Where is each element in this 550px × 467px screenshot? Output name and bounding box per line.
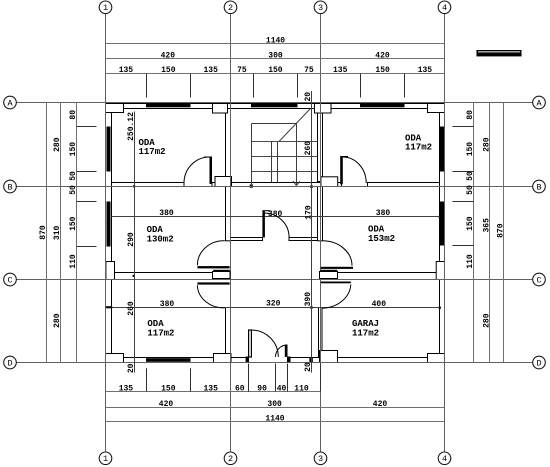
svg-text:135: 135 [203,384,218,393]
wall bottom D right of entrance [288,358,445,363]
wall upper hall south west part [231,238,263,241]
svg-text:20: 20 [127,363,136,373]
svg-text:110: 110 [69,254,78,269]
svg-text:75: 75 [304,66,314,75]
entrance door small swing arc [275,345,287,357]
svg-text:300: 300 [268,51,283,60]
svg-text:870: 870 [39,225,48,240]
svg-text:1140: 1140 [266,36,285,45]
dimension labels right (rotated) [466,110,506,328]
bubble 1 top [99,1,112,14]
left dim detail line [76,103,78,363]
right dim 280-365-280 line [489,103,491,363]
wall grid3 lower hall [319,308,323,358]
svg-text:1140: 1140 [265,414,284,423]
svg-text:130m2: 130m2 [147,235,174,245]
svg-text:150: 150 [161,384,176,393]
right dim 870 line [503,103,505,363]
interior dim line left vertical [134,112,136,373]
interior dim line lower horizontal [112,307,440,309]
dimension labels bottom [119,384,388,423]
svg-text:ODA: ODA [368,224,385,234]
bubble 2 bottom [224,452,237,465]
vestibule right upper leaf (black) [321,267,353,269]
left dim 280-310-280 line [60,103,62,363]
stair divider left line [271,142,273,183]
svg-text:380: 380 [268,210,283,219]
svg-text:20: 20 [304,362,313,372]
bubble D left [4,356,17,369]
pier A1 corner [106,104,124,113]
svg-text:280: 280 [482,137,491,152]
entrance jamb right (black) [288,357,291,363]
vestibule right mullion box [320,272,338,279]
svg-text:365: 365 [482,218,491,233]
svg-text:2: 2 [228,454,233,464]
svg-text:110: 110 [294,384,309,393]
stair landing top [252,123,297,125]
grid line D [16,362,532,364]
svg-text:3: 3 [318,3,323,13]
window top-left room [146,104,191,108]
svg-text:420: 420 [159,400,174,409]
svg-text:400: 400 [372,300,387,309]
pier A3 [315,104,332,114]
svg-text:ODA: ODA [147,319,164,329]
grid line B [16,186,532,188]
pier D grid2 [214,354,232,363]
window bottom-left room [146,358,191,362]
stair break diagonal [279,109,311,142]
right extension ticks [453,126,474,128]
svg-text:1: 1 [103,454,108,464]
svg-text:150: 150 [268,66,283,75]
vestibule left upper swing arc [197,241,224,266]
wall grid3 upper hall [318,187,323,241]
vestibule left lower swing arc [197,285,224,308]
pier B grid2 [215,177,232,187]
svg-text:135: 135 [119,384,134,393]
pier D4 corner [428,354,445,363]
pier C right wall [436,262,444,280]
svg-text:250.12: 250.12 [127,112,136,141]
vestibule left lower leaf (black) [197,282,229,284]
door top-left room: swing arc [184,157,210,183]
bottom dim 420-300-420 line [106,407,445,409]
svg-text:290: 290 [127,232,136,247]
dim line end dots [439,307,441,309]
svg-text:150: 150 [375,66,390,75]
svg-text:420: 420 [373,400,388,409]
svg-text:D: D [536,358,541,368]
svg-text:4: 4 [442,454,447,464]
svg-text:310: 310 [53,226,62,241]
svg-text:117m2: 117m2 [405,143,432,153]
wall C left segment [115,273,213,280]
svg-text:380: 380 [160,300,175,309]
bubble 4 bottom [438,452,451,465]
svg-text:117m2: 117m2 [147,328,174,338]
svg-text:380: 380 [159,209,174,218]
svg-text:A: A [7,98,13,108]
entrance door big swing arc [251,330,278,357]
svg-text:420: 420 [161,51,176,60]
svg-text:150: 150 [161,66,176,75]
svg-text:B: B [536,182,541,192]
bubble A left [4,96,17,109]
left extension ticks [77,126,97,128]
svg-text:280: 280 [53,313,62,328]
svg-text:135: 135 [119,66,134,75]
svg-text:40: 40 [277,384,287,393]
svg-text:50: 50 [466,171,475,181]
svg-text:110: 110 [466,254,475,269]
window right lower [440,202,444,246]
wall grid3 stairwell [318,109,323,182]
wall right 4 [440,104,445,363]
svg-text:420: 420 [375,51,390,60]
pier A2 [213,104,228,114]
vestibule right lower swing arc [322,285,350,309]
door top-right room: leaf [340,156,366,184]
wall C right segment [338,273,437,280]
bottom dim 1140 line [106,421,445,423]
dim tick on left wall at lower interior line [106,306,112,308]
grid line 4 [444,14,446,452]
vestibule right lower leaf (black) [321,282,351,284]
svg-text:870: 870 [496,223,505,238]
svg-text:GARAJ: GARAJ [352,319,379,329]
svg-text:150: 150 [69,142,78,157]
svg-text:50: 50 [69,185,78,195]
svg-text:50: 50 [69,171,78,181]
window top stairwell [251,104,298,108]
svg-text:153m2: 153m2 [368,234,395,244]
entrance jamb left (black) [246,357,249,363]
grid line C [16,279,532,281]
door upper hall: swing arc [265,213,289,237]
svg-text:260: 260 [127,301,136,316]
wall B left segment [112,183,185,187]
top dim 420-300-420 line [106,58,445,60]
bubble 1 bottom [99,452,112,465]
svg-text:150: 150 [466,216,475,231]
grid line 2 [230,14,232,452]
stair walk line [296,124,298,186]
svg-text:135: 135 [418,66,433,75]
stair divider right line [277,142,279,183]
svg-text:A: A [536,98,542,108]
svg-text:260: 260 [304,141,313,156]
svg-text:50: 50 [466,185,475,195]
window left upper [107,127,111,172]
door upper hall: leaf [262,210,289,237]
svg-text:117m2: 117m2 [352,329,379,339]
pier A4 corner [428,104,445,113]
top dim detail line [106,73,445,75]
vestibule right upper swing arc [322,241,352,266]
stair left edge [251,124,253,187]
svg-text:60: 60 [235,384,245,393]
door top-left room: leaf [184,157,212,185]
svg-text:20: 20 [304,92,313,102]
bubble A right [533,96,546,109]
svg-text:150: 150 [466,142,475,157]
bubble B right [533,180,546,193]
bottom dim detail line [106,391,321,393]
grid line 3 [320,14,322,452]
tick on D wall at interior line [309,357,312,362]
bubble C right [533,273,546,286]
svg-text:1: 1 [103,3,108,13]
svg-text:75: 75 [237,66,247,75]
top dim 1140 line [106,43,445,45]
wall grid2 stairwell [226,109,231,182]
pier C left wall [106,262,115,280]
bubble 3 bottom [314,452,327,465]
top extension ticks [146,74,148,98]
stair newel block [250,185,253,188]
grid line A [16,102,532,104]
svg-text:135: 135 [333,66,348,75]
svg-text:D: D [7,358,12,368]
pier D grid3 [320,351,338,363]
entrance door big leaf [249,330,279,357]
wall left 1 [106,104,112,363]
svg-text:80: 80 [466,110,475,120]
wall grid2 lower hall [226,308,231,358]
wall B middle segment [212,183,342,187]
tick dot interior line at wall B [310,185,313,188]
bubble 4 top [438,1,451,14]
vestibule left upper leaf (black) [197,266,229,268]
bubble D right [533,356,546,369]
bubble 3 top [314,1,327,14]
svg-text:300: 300 [267,400,282,409]
bubble B left [4,180,17,193]
vestibule mullion box top bars [213,270,230,272]
bottom extension ticks [146,368,148,391]
svg-text:135: 135 [203,66,218,75]
tick dot interior line at wall B left [133,185,135,187]
svg-text:280: 280 [53,137,62,152]
grid line 1 [105,14,107,452]
stair treads [252,141,318,143]
svg-text:90: 90 [257,384,267,393]
svg-text:117m2: 117m2 [139,147,166,157]
svg-text:C: C [536,275,541,285]
bubble C left [4,273,17,286]
window right upper [440,127,444,172]
svg-text:280: 280 [482,313,491,328]
wall bottom D left of entrance [106,358,249,363]
window top-right room [360,104,405,108]
dimension labels left (rotated) [39,110,78,328]
svg-text:B: B [7,182,12,192]
wall top A [106,104,445,109]
svg-text:380: 380 [376,209,391,218]
svg-text:C: C [7,275,12,285]
svg-text:320: 320 [266,300,281,309]
pier B grid3 [321,177,338,187]
stair walk arrow [293,181,297,186]
svg-text:170: 170 [305,205,314,220]
svg-text:390: 390 [304,292,313,307]
interior dim line upper horizontal [112,216,440,218]
left dim 870 line [46,103,48,363]
door top-right room: swing arc [343,157,366,183]
wall upper hall south east part [289,238,318,241]
entrance door small leaf [275,345,287,357]
svg-text:2: 2 [228,3,233,13]
svg-text:80: 80 [69,110,78,120]
wall B right segment [368,183,440,187]
dimension labels top [119,36,433,75]
interior dim line right vertical [311,91,313,373]
interior dimension labels [127,92,391,373]
tick dot interior line crossing 307 [310,306,312,308]
svg-text:4: 4 [442,3,447,13]
bubble 2 top [224,1,237,14]
wall grid2 upper hall [226,187,231,241]
right dim detail line [473,103,475,363]
svg-text:3: 3 [318,454,323,464]
vestibule left mullion box [213,272,231,279]
window left lower [107,202,111,247]
svg-text:150: 150 [69,216,78,231]
scale bar top right [477,50,522,56]
pier D1 corner [106,354,124,363]
